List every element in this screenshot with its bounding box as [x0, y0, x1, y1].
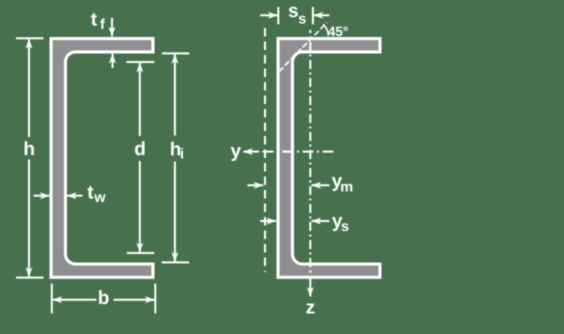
centroid z-axis dash-dot line	[309, 30, 311, 282]
dim y_s: left arrow	[260, 220, 276, 222]
svg-text:i: i	[180, 146, 184, 162]
svg-text:h: h	[23, 139, 35, 160]
dim y_m: right arrow	[312, 184, 330, 186]
dim t_f: up arrow below flange	[112, 54, 114, 68]
dim h: bottom tick	[16, 277, 44, 279]
svg-text:t: t	[91, 9, 98, 30]
dim y_m: left arrow	[247, 184, 263, 186]
dim s_s: left arrow	[260, 14, 277, 16]
y-axis dash-dot centre line	[263, 151, 334, 153]
channel profile left figure	[51, 39, 153, 278]
dim h_i: bottom tick	[162, 261, 190, 263]
svg-text:y: y	[231, 141, 242, 162]
shear-centre dashed line	[264, 28, 266, 272]
dim h: top tick	[16, 37, 44, 39]
dim b: right extension line	[154, 284, 156, 314]
dim b: right arrow	[114, 299, 155, 301]
svg-text:s: s	[298, 11, 306, 27]
dim h: upper line w/ arrow	[28, 39, 30, 137]
svg-text:w: w	[93, 190, 106, 206]
svg-text:s: s	[288, 1, 299, 22]
dim t_f: down arrow above flange	[111, 18, 113, 37]
channel profile right figure	[278, 39, 380, 278]
dim y_s: right arrow	[312, 220, 330, 222]
dim s_s: right tick	[312, 7, 314, 24]
dim b: left extension line	[51, 284, 53, 314]
dim t_w: left arrow	[34, 195, 50, 197]
45 degree construction line	[279, 23, 327, 72]
45 degree angle arc	[323, 24, 328, 36]
dim h: lower line w/ arrow	[28, 160, 30, 277]
dim s_s: right arrow	[314, 14, 330, 16]
svg-text:f: f	[100, 17, 105, 33]
dim s_s: left tick	[277, 7, 279, 24]
dim t_w: right arrow	[67, 195, 83, 197]
dim b: left arrow	[53, 299, 97, 301]
z-axis arrow	[309, 282, 311, 297]
svg-text:m: m	[340, 180, 353, 196]
svg-text:b: b	[98, 288, 110, 309]
svg-text:z: z	[306, 298, 316, 319]
dim h_i: lower line w/ arrow	[174, 162, 176, 262]
svg-text:45°: 45°	[328, 24, 348, 39]
dim h_i: top tick	[162, 52, 189, 54]
dim d: top tick	[126, 61, 154, 63]
svg-text:d: d	[134, 139, 146, 160]
dim h_i: upper line w/ arrow	[174, 54, 176, 135]
dim d: upper line w/ arrow	[139, 63, 141, 136]
svg-text:s: s	[341, 219, 349, 235]
y-axis arrow	[243, 151, 259, 153]
dim d: bottom tick	[127, 252, 154, 254]
dim d: lower line w/ arrow	[139, 161, 141, 252]
